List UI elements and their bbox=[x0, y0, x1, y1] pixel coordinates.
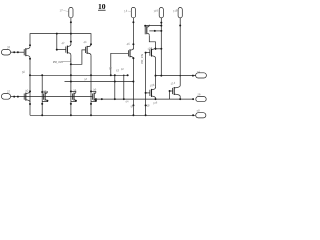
node drop123 end bbox=[123, 98, 125, 100]
node Q7c drain bbox=[70, 90, 72, 92]
wire Q9 gate bbox=[170, 90, 173, 92]
label 12 bbox=[59, 8, 63, 13]
node Q7b src b bbox=[41, 103, 43, 105]
wire Q8 gate bbox=[146, 92, 150, 94]
node Q7c src a bbox=[75, 100, 77, 102]
node B2 d1 bbox=[70, 81, 72, 83]
leader 14 bbox=[128, 10, 131, 13]
terminal oval IN2 bbox=[1, 94, 10, 100]
wire col4 bbox=[179, 18, 181, 86]
node col3 b bbox=[160, 25, 162, 27]
label 58 bbox=[146, 103, 150, 108]
wire Q6 source down bbox=[155, 58, 157, 76]
node col1 a bbox=[70, 21, 72, 23]
label 30 bbox=[25, 88, 29, 93]
node out1 d3 bbox=[192, 75, 194, 77]
wire Q4 gate bbox=[111, 53, 129, 75]
wire out2 bbox=[96, 98, 193, 100]
node col4 out1 cross bbox=[179, 75, 181, 77]
wire Q6 drain tie bbox=[156, 48, 162, 50]
transistor Q9 bbox=[173, 86, 181, 97]
wire Q5 gate top bbox=[145, 25, 161, 27]
svg-text:PD_CN: PD_CN bbox=[140, 53, 144, 64]
wire Q8 drain up bbox=[155, 76, 157, 88]
node out2 d3 bbox=[179, 98, 181, 100]
node B1 d4 bbox=[90, 74, 92, 76]
wire Q2 gate drop bbox=[56, 34, 58, 50]
wire in1 bbox=[11, 51, 25, 53]
node col1 cross B0 bbox=[70, 33, 72, 35]
wire Q6 drain stub bbox=[155, 47, 157, 50]
node col3 a bbox=[160, 22, 162, 24]
label 14 bbox=[124, 9, 128, 14]
node col146 rail bbox=[145, 114, 147, 116]
node B1 d1 bbox=[29, 74, 31, 76]
node Q2 gate bbox=[56, 49, 58, 51]
label 36 bbox=[93, 87, 97, 92]
node Q7d rail bbox=[90, 114, 92, 116]
node Q7b src a bbox=[46, 100, 48, 102]
wire col1 upper bbox=[70, 18, 72, 45]
node drop114 end bbox=[114, 98, 116, 100]
node col2 src bbox=[132, 104, 134, 106]
label 108 bbox=[152, 100, 158, 105]
transistor Q7c bbox=[72, 91, 76, 102]
node out2 d2b bbox=[155, 98, 157, 100]
terminal oval OUT1 bbox=[196, 73, 207, 78]
title 10 bbox=[98, 2, 106, 11]
node Q7a src bbox=[29, 103, 31, 105]
node Q1 source bbox=[29, 58, 31, 60]
node in1 b bbox=[17, 51, 19, 53]
node Q4 drain bbox=[132, 43, 134, 45]
wire drop 123 to out2 bbox=[123, 75, 125, 99]
wire Q9 source down bbox=[179, 96, 181, 99]
label 34 bbox=[73, 88, 77, 93]
node rail out bbox=[192, 114, 194, 116]
node Q1 drain bbox=[29, 44, 31, 46]
node gate column Q8 gate bbox=[145, 92, 147, 94]
wire elbow to Q3 gate bbox=[71, 50, 86, 64]
wire Q7c source jog bbox=[71, 100, 76, 101]
transistor Q7d bbox=[93, 91, 96, 102]
wire in2 bbox=[11, 96, 25, 98]
label 106 bbox=[149, 83, 155, 88]
transistor Q1 bbox=[24, 47, 30, 58]
transistor Q7b bbox=[44, 91, 48, 102]
transistor Q4 bbox=[128, 48, 133, 59]
wire drop 114 to out2 bbox=[114, 75, 116, 99]
node col3 out1 bbox=[160, 75, 162, 77]
terminal oval OUT2 bbox=[196, 97, 206, 102]
wire Q3 source down bbox=[90, 55, 92, 115]
wire Q2 source down bbox=[70, 55, 72, 115]
node in2 a bbox=[13, 96, 15, 98]
node B1 d5 bbox=[110, 74, 112, 76]
node out2 d4 bbox=[192, 98, 194, 100]
node in2 b bbox=[17, 96, 19, 98]
terminal oval VDD1 bbox=[69, 7, 73, 17]
label 20 bbox=[6, 45, 11, 50]
node Q7d drain bbox=[90, 90, 92, 92]
node B1 d3 bbox=[70, 74, 72, 76]
label 42 bbox=[61, 41, 65, 46]
node col2 a bbox=[132, 21, 134, 23]
node Q5 drain tie bbox=[154, 30, 156, 32]
label 28 bbox=[195, 108, 200, 113]
terminal oval VDD2 bbox=[131, 7, 135, 17]
wire col2 upper bbox=[132, 18, 134, 50]
node Q7c rail bbox=[70, 114, 72, 116]
wire gate column 146 bbox=[145, 53, 147, 116]
wire Q7b drain jog bbox=[42, 91, 47, 93]
node col3 d bbox=[160, 48, 162, 50]
node Q2 source elbow bbox=[70, 63, 72, 65]
node Q7a drain bbox=[29, 90, 31, 92]
transistor Q8 bbox=[150, 88, 156, 99]
wire col3 bbox=[160, 18, 162, 76]
node Q4 source bbox=[132, 57, 134, 59]
svg-text:P0_CN: P0_CN bbox=[53, 60, 64, 64]
node B1 d6 bbox=[114, 74, 116, 76]
wire Q7d source jog bbox=[91, 100, 96, 101]
label 46 bbox=[126, 42, 130, 47]
node col4 a bbox=[179, 25, 181, 27]
node Q2 drain bbox=[70, 41, 72, 43]
label 56 bbox=[130, 104, 134, 109]
wire Q1 source down bbox=[29, 58, 31, 116]
node Q6 drain bbox=[155, 48, 157, 50]
node Q7d src b bbox=[90, 103, 92, 105]
wire ground rail bbox=[30, 114, 195, 116]
label 22 bbox=[6, 89, 11, 94]
wire Q8 source down bbox=[155, 98, 157, 99]
node gate column src bbox=[145, 104, 147, 106]
node Q7b drain bbox=[41, 91, 43, 93]
label 52b bbox=[115, 68, 119, 73]
node Q7b rail bbox=[41, 114, 43, 116]
label 52a bbox=[108, 66, 112, 71]
terminal oval IN1 bbox=[1, 49, 10, 55]
wire col42 B1 to rail bbox=[41, 75, 43, 115]
svg-text:10: 10 bbox=[98, 2, 106, 11]
node Q6 gate bbox=[145, 52, 147, 54]
terminal oval GND bbox=[196, 113, 206, 118]
node Q3 drain bbox=[90, 43, 92, 45]
node col2 rail bbox=[132, 114, 134, 116]
node Q7c src b bbox=[70, 103, 72, 105]
node out2 d0 bbox=[95, 98, 97, 100]
label 26 bbox=[196, 92, 201, 97]
transistor Q6 bbox=[150, 47, 156, 58]
vertical label PD_CN bbox=[140, 53, 144, 64]
wire Q4 source down bbox=[132, 57, 134, 115]
node col3 c bbox=[160, 30, 162, 32]
label P0_CN bbox=[53, 58, 71, 64]
node B2 d3 bbox=[132, 81, 134, 83]
wire Q9 gate drop bbox=[169, 91, 171, 99]
wire bus B1 bbox=[30, 74, 129, 76]
node Q8 drain out1 bbox=[155, 75, 157, 77]
terminal oval VDD4 bbox=[178, 8, 182, 18]
node B1 d7 bbox=[123, 75, 125, 77]
wire out1 bbox=[156, 75, 196, 77]
label 54 bbox=[84, 77, 88, 82]
wire gate bus bottom bbox=[24, 96, 92, 98]
node out2 d1 bbox=[101, 98, 103, 100]
wire Q2 gate bbox=[57, 49, 66, 51]
label 50 bbox=[21, 70, 25, 75]
node Q5 gate top bbox=[144, 25, 146, 27]
terminal oval VDD3 bbox=[159, 8, 163, 18]
leader 12 bbox=[63, 10, 68, 11]
label 60 bbox=[120, 67, 124, 72]
node Q9 gate bbox=[169, 90, 171, 92]
node in1 a bbox=[13, 51, 15, 53]
label 24 bbox=[195, 70, 200, 75]
node B0 gate branch bbox=[56, 33, 58, 35]
label 114 bbox=[170, 81, 176, 86]
node Q7d src a bbox=[95, 100, 97, 102]
wire bus B2 bbox=[65, 81, 134, 83]
transistor Q5 bbox=[145, 25, 149, 36]
label 16 bbox=[153, 8, 159, 13]
transistor Q2 bbox=[66, 44, 71, 55]
wire Q7d drain jog bbox=[91, 90, 96, 92]
label 44 bbox=[83, 40, 87, 45]
label 64 bbox=[125, 99, 129, 104]
node B2 d2 bbox=[114, 81, 116, 83]
wire Q5 source to Q6 drain bbox=[149, 36, 155, 48]
node B1 end bbox=[127, 74, 129, 76]
transistor Q7a bbox=[24, 91, 30, 102]
label 18 bbox=[172, 8, 178, 13]
node B1 d2 bbox=[41, 74, 43, 76]
wire Q7b source jog bbox=[42, 100, 47, 101]
wire Q5 drain tie bbox=[149, 30, 161, 32]
label 104 bbox=[147, 46, 153, 51]
wire Q6 gate bbox=[146, 52, 150, 54]
transistor Q3 bbox=[86, 45, 92, 56]
wire B0 bbox=[30, 34, 91, 47]
wire Q7c drain jog bbox=[71, 90, 76, 92]
label 32 bbox=[43, 89, 47, 94]
